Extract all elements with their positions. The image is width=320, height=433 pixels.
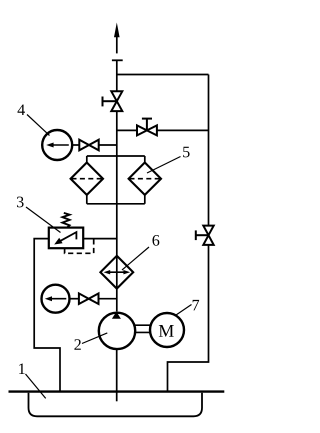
tank top line xyxy=(9,390,225,392)
wire: main line from valve V1 down through bridge and filter to pump xyxy=(116,111,118,311)
wire: relief valve outlet to main line xyxy=(83,238,117,240)
label 4 xyxy=(18,104,25,115)
valve V3 (vertical shutoff valve on right rail) xyxy=(196,226,214,245)
label 6 xyxy=(152,235,159,246)
label 2 xyxy=(74,339,80,350)
relief valve 3 internal arrow xyxy=(54,232,76,244)
leader for label 3 xyxy=(26,207,61,233)
wire: left top connector xyxy=(86,156,88,163)
flow arrow (top outlet) xyxy=(114,23,120,54)
bridge top line (filters 5) xyxy=(87,155,145,157)
port bar at top of main line xyxy=(112,59,123,61)
relief valve 3 spring xyxy=(62,213,69,228)
wire: bowtie B1 to main line xyxy=(99,144,117,146)
bowtie valve B2 (lower gauge isolator) xyxy=(79,293,99,304)
label 1 xyxy=(19,363,25,374)
wire: right bottom connector xyxy=(144,194,146,203)
pressure gauge 4 (circle with left arrow) xyxy=(42,130,72,160)
wire: lower gauge to bowtie xyxy=(69,298,79,300)
pilot line (dashed) under relief valve xyxy=(65,239,94,254)
label 5 xyxy=(183,147,189,158)
label 3 xyxy=(17,197,24,208)
lower pressure gauge (circle with left arrow) xyxy=(42,285,70,313)
leader for label 1 xyxy=(26,374,46,398)
shaft coupling pump-motor xyxy=(135,325,152,332)
wire: branch to valve V2 (right part) xyxy=(157,129,209,131)
valve V1 (vertical shutoff valve on main line) xyxy=(103,91,123,111)
wire: right top connector xyxy=(144,156,146,163)
leader for label 4 xyxy=(27,115,50,136)
valve V2 (horizontal shutoff valve) xyxy=(137,119,157,136)
wire: pump suction into tank xyxy=(116,350,118,402)
wire: left bottom connector xyxy=(86,194,88,203)
leader for label 5 xyxy=(147,157,181,174)
wire: branch to valve V2 (left part) xyxy=(117,129,137,131)
wire: right rail lower with step to tank xyxy=(168,245,209,392)
leader for label 2 xyxy=(82,333,107,344)
wire: bowtie B2 to main line xyxy=(99,298,117,300)
pump 2 (circle with filled triangle up) xyxy=(99,312,135,349)
leader for label 6 xyxy=(122,247,149,270)
relief valve 3 body xyxy=(49,228,83,249)
tank 1 body xyxy=(29,393,203,417)
motor 7 (circle with M) xyxy=(150,313,184,347)
wire: left rail from relief valve to tank xyxy=(34,239,60,392)
wire: top branch to right rail xyxy=(117,74,209,76)
bowtie valve B1 (gauge 4 isolator) xyxy=(79,140,98,151)
filter 5 right (diamond) xyxy=(129,163,161,195)
label 7 xyxy=(193,300,199,310)
wire: right rail upper xyxy=(208,75,210,226)
wire: gauge 4 to bowtie xyxy=(72,144,79,146)
leader for label 7 xyxy=(175,305,191,316)
wire: main line upper section xyxy=(116,60,118,91)
heat exchanger 6 (diamond with double arrow) xyxy=(100,256,133,289)
bridge bottom line xyxy=(87,203,145,205)
filter 5 left (diamond) xyxy=(71,163,103,195)
